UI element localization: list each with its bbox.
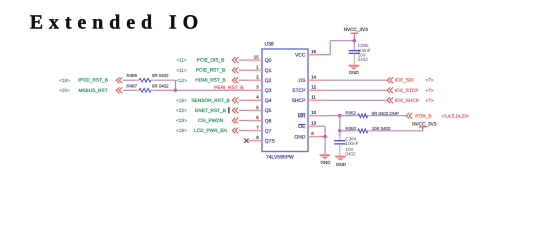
pin 15 stub (247, 59, 263, 61)
svg-text:<22>: <22> (176, 108, 187, 113)
svg-text:HDMI_RST_B: HDMI_RST_B (195, 78, 225, 84)
svg-text:<3,4,5,14,23>: <3,4,5,14,23> (442, 113, 470, 118)
svg-text:<19>: <19> (59, 78, 70, 83)
svg-text:IOX_SDI: IOX_SDI (395, 78, 414, 84)
svg-text:IOX_SHCP: IOX_SHCP (395, 98, 419, 104)
IC pin name SHCP (292, 98, 307, 104)
page ref &lt;22&gt; (176, 108, 187, 113)
svg-text:14: 14 (311, 75, 316, 80)
svg-text:<12>: <12> (176, 78, 187, 83)
svg-text:DS: DS (299, 78, 307, 84)
wire junction down to C384 (339, 131, 341, 141)
svg-text:<7>: <7> (425, 98, 433, 103)
wire GND pin to junction (321, 136, 325, 138)
wire to pin 2 (239, 79, 247, 81)
page ref &lt;19&gt; (59, 78, 70, 83)
wire R352 to POR_B port (371, 115, 406, 117)
wire MR junction down to R353 row (339, 116, 341, 131)
wire OE down to GND pin row (318, 126, 325, 136)
wire to pin 7 (239, 130, 247, 132)
net label SENSOR_RST_B (191, 98, 229, 104)
svg-text:16: 16 (311, 49, 316, 54)
svg-text:11: 11 (311, 95, 316, 100)
port chevron for ENET_RST_B (232, 108, 238, 114)
wire VCC to power rail (317, 41, 355, 55)
svg-text:<11>: <11> (176, 68, 187, 73)
resistor R496 (127, 73, 170, 82)
svg-text:NVCC_3V3: NVCC_3V3 (344, 27, 369, 32)
wire to pin 5 (239, 109, 247, 111)
net label PERI_RST_B (214, 85, 243, 91)
pin number 13 (311, 121, 316, 126)
page ref &lt;11&gt; (176, 68, 187, 73)
wire junction down to ground (324, 137, 326, 155)
svg-text:0R 0402: 0R 0402 (152, 83, 169, 88)
IC pin name Q0 (265, 58, 272, 64)
IC pin name MR (298, 114, 306, 120)
wire vertical joining R496/R497 rows (175, 80, 177, 90)
pin number 11 (311, 95, 316, 100)
IC pin name GND (294, 134, 306, 140)
pin number 16 (311, 49, 316, 54)
net label LCD_PWR_EN (194, 128, 227, 134)
svg-text:74LV595PW: 74LV595PW (266, 155, 294, 161)
svg-text:NVCC_3V3: NVCC_3V3 (412, 121, 437, 126)
port label IOX_SDI (395, 78, 414, 84)
svg-text:PCIE_DIS_B: PCIE_DIS_B (197, 58, 225, 64)
pin 11 stub (308, 99, 323, 101)
svg-text:GND: GND (321, 160, 332, 165)
port chevron for PCIE_RST_B (232, 67, 238, 73)
svg-text:MKBUS_RST: MKBUS_RST (78, 88, 107, 94)
pin 10 stub (MR) (308, 115, 322, 117)
pin number 14 (311, 75, 316, 80)
power symbol NVCC_3V3 (top) (344, 27, 369, 41)
IC pin name Q7 (265, 128, 272, 134)
IC U38 value 74LV595PW (266, 155, 294, 161)
page ref &lt;16&gt; (176, 98, 187, 103)
IC U38 reference designator (265, 41, 274, 47)
wire junction to C385 (353, 41, 355, 51)
svg-text:STCP: STCP (292, 88, 306, 94)
svg-text:VCC: VCC (295, 53, 306, 59)
svg-text:R352: R352 (346, 111, 357, 116)
svg-text:CSI_PWDN: CSI_PWDN (198, 118, 224, 124)
wire to pin 4 (239, 99, 247, 101)
svg-text:GND: GND (336, 162, 347, 167)
pin 16 stub (VCC) (308, 54, 317, 56)
svg-text:<16>: <16> (176, 98, 187, 103)
svg-text:Extended IO: Extended IO (30, 11, 204, 33)
IC pin name DS (299, 78, 307, 84)
wire to port IOX_SHCP (323, 99, 387, 101)
IC pin name Q6 (265, 118, 272, 124)
IC pin name Q2 (265, 78, 272, 84)
wire R496 to junction (154, 79, 175, 81)
port chevron for IPOD_RST_B (116, 77, 122, 83)
wire R353 to NVCC_3V3 (371, 127, 423, 130)
wire R497 to junction (154, 89, 175, 91)
junction MR row (338, 114, 341, 117)
capacitor C385 (349, 43, 371, 62)
svg-text:Q7: Q7 (265, 128, 272, 134)
junction at PERI_RST_B (174, 89, 177, 92)
wire to pin 6 (239, 120, 247, 122)
net label PCIE_DIS_B (197, 58, 225, 64)
pin 12 stub (308, 89, 323, 91)
port label IOX_SHCP (395, 98, 419, 104)
resistor R497 (127, 83, 170, 92)
net label PCIE_RST_B (196, 68, 225, 74)
svg-text:GND: GND (349, 70, 360, 75)
wire to port IOX_SDI (323, 79, 387, 81)
svg-text:Q1: Q1 (265, 68, 272, 74)
port label IOX_STCP (395, 88, 419, 94)
svg-text:R353: R353 (346, 126, 357, 131)
wire junction to R353 (340, 130, 355, 132)
svg-text:12: 12 (311, 85, 316, 90)
svg-text:<7>: <7> (425, 88, 433, 93)
svg-text:100nF: 100nF (345, 141, 358, 146)
page ref &lt;3,4,5,14,23&gt; (442, 113, 470, 118)
svg-text:Q5: Q5 (265, 108, 272, 114)
page ref &lt;7&gt; (425, 78, 433, 83)
IC U38 74LV595PW body (262, 49, 308, 152)
svg-text:Q7S: Q7S (265, 138, 276, 144)
net label CSI_PWDN (198, 118, 224, 124)
wire to port IOX_STCP (323, 89, 387, 91)
svg-text:Q0: Q0 (265, 58, 272, 64)
page ref &lt;20&gt; (59, 88, 70, 93)
pin 1 stub (247, 69, 263, 71)
svg-text:<23>: <23> (176, 118, 187, 123)
pin 4 stub (247, 99, 263, 101)
svg-text:ENET_RST_B: ENET_RST_B (195, 108, 226, 114)
pin number 12 (311, 85, 316, 90)
svg-text:SENSOR_RST_B: SENSOR_RST_B (191, 98, 229, 104)
junction GND row (323, 135, 326, 138)
IC pin name Q5 (265, 108, 272, 114)
IC pin name OE (298, 124, 306, 130)
pin 9 stub (249, 140, 262, 142)
svg-text:Q3: Q3 (265, 88, 272, 94)
svg-text:IPOD_RST_B: IPOD_RST_B (78, 78, 108, 84)
ground under C384 (335, 156, 347, 167)
svg-text:LCD_PWR_EN: LCD_PWR_EN (194, 128, 227, 134)
pin number 5 (256, 105, 259, 110)
port chevron for SENSOR_RST_B (232, 97, 238, 103)
power symbol NVCC_3V3 (pull-up) (412, 121, 437, 127)
port label POR_B (415, 113, 431, 119)
ground for OE and pin 8 (319, 154, 331, 165)
net label MKBUS_RST (78, 88, 107, 94)
svg-text:15: 15 (254, 55, 259, 60)
svg-text:OE: OE (298, 124, 306, 130)
pin number 2 (256, 75, 259, 80)
wire C384 to GND (339, 144, 341, 156)
svg-text:POR_B: POR_B (415, 113, 431, 119)
wire junction to R352 (340, 115, 355, 117)
svg-text:0R 0402: 0R 0402 (152, 73, 169, 78)
capacitor C384 (334, 136, 358, 156)
pin 8 stub (GND) (308, 136, 321, 138)
svg-text:IOX_STCP: IOX_STCP (395, 88, 419, 94)
pin number 15 (254, 55, 259, 60)
IC pin name STCP (292, 88, 306, 94)
pin 14 stub (308, 79, 323, 81)
page ref &lt;16&gt; (176, 128, 187, 133)
wire MR to junction (322, 115, 340, 117)
svg-text:13: 13 (311, 121, 316, 126)
svg-text:0402: 0402 (345, 152, 356, 157)
pin 3 stub (247, 89, 263, 91)
svg-text:PCIE_RST_B: PCIE_RST_B (196, 68, 225, 74)
pin number 7 (256, 125, 259, 130)
svg-text:R496: R496 (127, 73, 138, 78)
svg-text:SHCP: SHCP (292, 98, 307, 104)
svg-text:<7>: <7> (425, 78, 433, 83)
port chevron for LCD_PWR_EN (232, 128, 238, 134)
net label HDMI_RST_B (195, 78, 225, 84)
svg-text:R497: R497 (127, 83, 138, 88)
IC pin name VCC (295, 53, 306, 59)
svg-text:Q2: Q2 (265, 78, 272, 84)
net label IPOD_RST_B (78, 78, 108, 84)
wire PERI_RST_B to pin 3 (176, 89, 247, 91)
ground under C385 (348, 65, 360, 75)
pin number 4 (256, 95, 259, 100)
page ref &lt;23&gt; (176, 118, 187, 123)
port chevron for HDMI_RST_B (232, 77, 238, 83)
net label ENET_RST_B (195, 108, 226, 114)
pin 5 stub (247, 109, 263, 111)
svg-text:10K 0402: 10K 0402 (372, 126, 391, 131)
svg-text:10: 10 (311, 110, 316, 115)
pin 2 stub (247, 79, 263, 81)
IC pin name Q1 (265, 68, 272, 74)
svg-text:<20>: <20> (59, 88, 70, 93)
junction R353 row (338, 129, 341, 132)
text cursor artifact (228, 107, 229, 113)
no-connect X on pin 9 (244, 139, 248, 143)
pin 13 stub (OE) (308, 125, 318, 127)
pin 6 stub (247, 120, 263, 122)
port chevron for MKBUS_RST (116, 87, 122, 93)
svg-text:<11>: <11> (176, 58, 187, 63)
port chevron for CSI_PWDN (232, 118, 238, 124)
svg-text:<16>: <16> (176, 128, 187, 133)
pin 7 stub (247, 130, 263, 132)
page ref &lt;12&gt; (176, 78, 187, 83)
port chevron IOX_SDI (387, 77, 393, 83)
IC pin name Q7S (265, 138, 276, 144)
pin number 9 (256, 135, 259, 140)
wire C385 to GND (353, 53, 355, 64)
port chevron POR_B (406, 113, 412, 119)
pin number 1 (256, 65, 259, 70)
resistor R353 (346, 126, 392, 133)
svg-text:0402: 0402 (358, 57, 369, 62)
wire IPOD_RST_B to R496 (123, 79, 136, 81)
pin number 10 (311, 110, 316, 115)
pin number 6 (256, 115, 259, 120)
port chevron IOX_STCP (387, 87, 393, 93)
IC pin name Q3 (265, 88, 272, 94)
svg-text:Q6: Q6 (265, 118, 272, 124)
svg-text:MR: MR (298, 114, 306, 120)
junction VCC rail (353, 39, 356, 42)
page ref &lt;7&gt; (425, 88, 433, 93)
page ref &lt;7&gt; (425, 98, 433, 103)
wire to pin 1 (239, 69, 247, 71)
pin number 3 (256, 85, 259, 90)
svg-text:GND: GND (294, 134, 306, 140)
wire to pin 15 (239, 59, 247, 61)
IC pin name Q4 (265, 98, 272, 104)
port chevron for PCIE_DIS_B (232, 57, 238, 63)
svg-text:U38: U38 (265, 41, 274, 47)
svg-text:Q4: Q4 (265, 98, 272, 104)
wire MKBUS_RST to R497 (123, 89, 136, 91)
resistor R352 (346, 111, 399, 118)
port chevron IOX_SHCP (387, 97, 393, 103)
page ref &lt;11&gt; (176, 58, 187, 63)
pin number 8 (311, 131, 314, 136)
